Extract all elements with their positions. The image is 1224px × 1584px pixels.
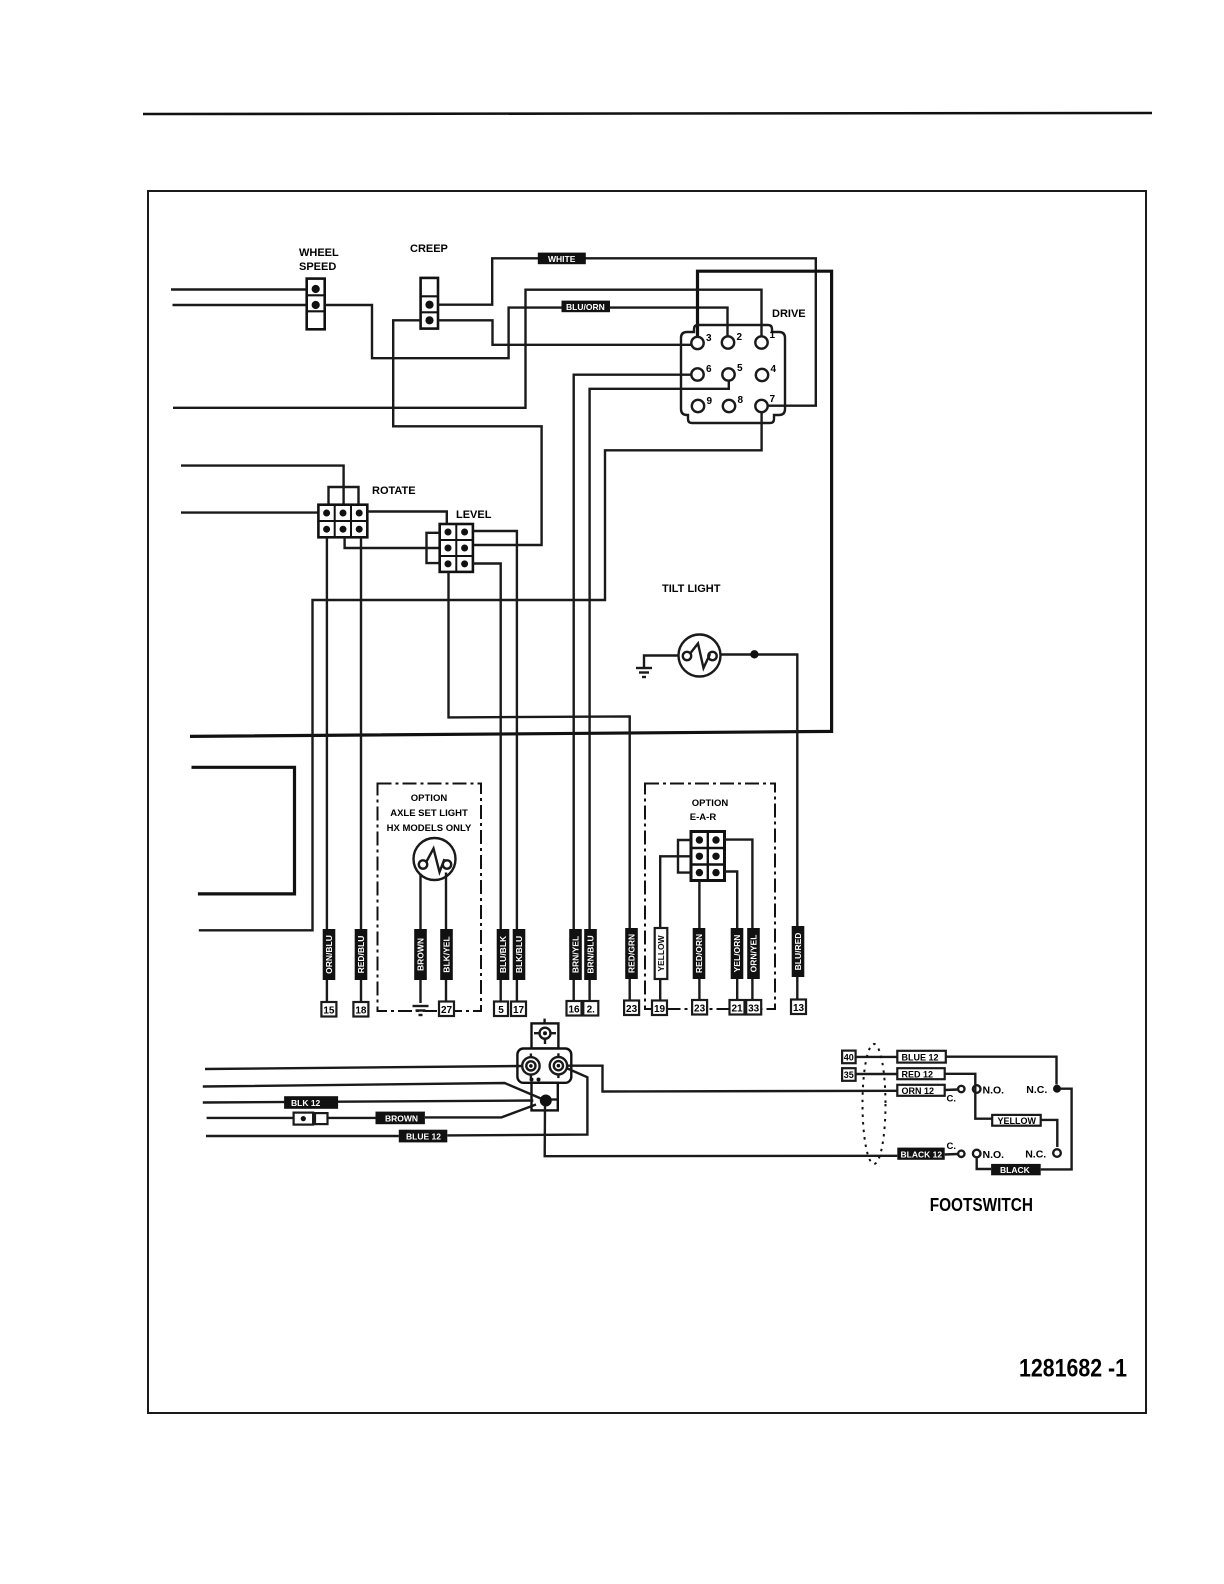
node: E-A-R left bracket rows 1-3	[678, 840, 691, 873]
wire: axle lamp right lead to terminal 27	[445, 873, 447, 1003]
terminal 13	[791, 1000, 806, 1015]
option box E-A-R	[645, 784, 775, 1010]
wire: E-A-R row1 right to terminal 33	[725, 840, 753, 1002]
terminal 17	[511, 1002, 526, 1017]
wire: DRIVE pin 7 long run to lower left stub	[199, 412, 762, 930]
svg-text:19: 19	[654, 1004, 666, 1015]
svg-text:7: 7	[770, 394, 776, 405]
node: harness bundle ellipse	[863, 1044, 886, 1164]
wire: ROTATE col3 down to terminal 18	[360, 537, 362, 1002]
svg-text:YELLOW: YELLOW	[998, 1116, 1037, 1126]
svg-text:N.C.: N.C.	[1025, 1149, 1046, 1161]
svg-text:C.: C.	[947, 1094, 957, 1105]
DRIVE pin 9	[692, 400, 704, 412]
terminal 18	[353, 1002, 368, 1017]
terminal 15	[321, 1002, 336, 1017]
svg-text:4: 4	[771, 364, 777, 375]
wire: left stub through wheel speed pin 2, BLU/ORN run to DRIVE pin 2	[173, 304, 307, 306]
wire: CREEP bottom left run to LEVEL row2 right	[393, 320, 541, 545]
DRIVE pin 8	[723, 400, 735, 412]
node: ROTATE top bracket	[329, 487, 359, 505]
wire label RED 12 footswitch	[897, 1068, 944, 1079]
wire label BLU/BLK	[497, 929, 510, 980]
wire: BLUE 12 up into right stud	[447, 1069, 587, 1136]
svg-text:HX MODELS ONLY: HX MODELS ONLY	[387, 823, 472, 834]
wire: RED 12 to YELLOW	[945, 1074, 993, 1119]
svg-text:27: 27	[441, 1005, 453, 1016]
wire label BLUE 12	[399, 1130, 448, 1143]
svg-text:BLUE 12: BLUE 12	[406, 1132, 441, 1142]
svg-text:WHITE: WHITE	[548, 254, 576, 264]
wire label RED/ORN	[693, 928, 706, 979]
wire: DRIVE pin 5 to terminal 2	[590, 381, 729, 1002]
wire: E-A-R row3 left down to terminal 23	[698, 881, 700, 1003]
svg-text:BLACK 12: BLACK 12	[901, 1149, 943, 1159]
terminal 19	[652, 1001, 667, 1016]
border frame of schematic	[148, 191, 1146, 1413]
connector WHEEL SPEED	[307, 279, 325, 330]
wire: BLUE 12 run to right stud	[206, 1135, 399, 1137]
wire: left stub to left stud	[205, 1066, 522, 1069]
DRIVE pin 3	[691, 337, 703, 349]
svg-text:BLU/ORN: BLU/ORN	[566, 302, 605, 312]
svg-text:CREEP: CREEP	[410, 243, 448, 255]
wire label BLK 12	[284, 1096, 338, 1109]
svg-text:RED 12: RED 12	[902, 1069, 934, 1079]
wire label ORN 12 footswitch	[897, 1085, 944, 1096]
terminal 40	[842, 1051, 856, 1064]
wire label RED/GRN	[625, 928, 638, 979]
connector E-A-R	[691, 832, 725, 881]
ground at axle lamp lead	[413, 1006, 429, 1015]
node: open loop rectangle lower left	[192, 767, 295, 894]
wire: CREEP top to WHITE loop into DRIVE pin 7 right side	[438, 258, 816, 405]
wire label YEL/ORN	[731, 928, 744, 979]
svg-text:1281682 -1: 1281682 -1	[1019, 1355, 1127, 1383]
wire: 40 to BLUE 12	[856, 1056, 898, 1058]
wire: tilt light to terminal 13	[721, 655, 798, 1003]
wire label BLACK	[991, 1164, 1041, 1175]
ground at tilt light	[636, 656, 679, 678]
svg-text:5: 5	[498, 1005, 504, 1016]
node: splice box with dot	[294, 1113, 314, 1125]
svg-text:E-A-R: E-A-R	[690, 812, 717, 823]
wire: ROTATE col2 bottom to LEVEL row2 left	[345, 537, 440, 548]
wire label BROWN	[376, 1112, 425, 1125]
wire: E-A-R row2 left to terminal 19	[660, 856, 691, 1002]
svg-text:BLK/BLU: BLK/BLU	[514, 936, 524, 973]
terminal 33	[746, 1000, 761, 1015]
wire: YELLOW to lower NC contact	[1041, 1120, 1058, 1147]
node: LEVEL left bracket rows 1-3	[427, 533, 440, 563]
wire: ROTATE col1 down to terminal 15	[326, 537, 328, 1002]
svg-text:18: 18	[355, 1006, 367, 1017]
DRIVE pin 1	[755, 336, 767, 348]
wire: LEVEL row3 left down to terminal 23	[449, 572, 630, 1002]
connector LEVEL	[440, 524, 473, 572]
svg-text:FOOTSWITCH: FOOTSWITCH	[930, 1194, 1033, 1215]
svg-text:ORN/YEL: ORN/YEL	[749, 935, 759, 973]
terminal 23 level	[624, 1001, 639, 1016]
terminal 16	[567, 1001, 582, 1016]
wire: BLUE 12 to upper NC contact	[946, 1057, 1057, 1085]
wire: BLK 12 run into splice	[203, 1101, 534, 1103]
svg-text:BLK/YEL: BLK/YEL	[442, 936, 452, 972]
wire: BROWN run continued	[328, 1117, 376, 1119]
svg-text:RED/BLU: RED/BLU	[356, 936, 366, 974]
wire: left stub to wheel speed pin 1	[171, 288, 307, 290]
svg-text:N.C.: N.C.	[1026, 1084, 1047, 1096]
svg-text:BLK 12: BLK 12	[291, 1098, 321, 1108]
lamp TILT LIGHT	[679, 635, 721, 677]
svg-text:1: 1	[770, 330, 776, 341]
svg-text:WHEEL: WHEEL	[299, 247, 339, 259]
svg-text:OPTION: OPTION	[411, 793, 448, 804]
wire: left stub to ROTATE row1 left	[181, 511, 318, 513]
svg-text:RED/ORN: RED/ORN	[694, 934, 704, 973]
wire label YELLOW	[655, 928, 668, 979]
wire label YELLOW	[992, 1115, 1040, 1126]
svg-text:RED/GRN: RED/GRN	[627, 934, 637, 973]
svg-text:YEL/ORN: YEL/ORN	[732, 935, 742, 973]
svg-text:21: 21	[731, 1004, 743, 1015]
svg-text:SPEED: SPEED	[299, 261, 336, 273]
svg-text:BROWN: BROWN	[385, 1113, 418, 1123]
wire label BLUE 12 footswitch	[897, 1051, 946, 1063]
wire: right stud to footswitch ORN 12	[567, 1066, 897, 1092]
wire label BRN/YEL	[569, 929, 582, 980]
svg-text:5: 5	[737, 363, 743, 374]
terminal 5	[494, 1002, 508, 1017]
svg-text:BLU/BLK: BLU/BLK	[498, 935, 508, 973]
svg-text:DRIVE: DRIVE	[772, 308, 806, 320]
terminal 21	[730, 1000, 745, 1015]
lamp AXLE SET LIGHT	[414, 838, 456, 880]
svg-text:YELLOW: YELLOW	[656, 934, 666, 971]
wire: E-A-R row3 right to terminal 21	[725, 872, 738, 1003]
wire: CREEP bottom right run to DRIVE pin 3	[438, 320, 691, 345]
svg-text:BROWN: BROWN	[416, 938, 426, 971]
svg-text:8: 8	[738, 395, 744, 406]
svg-text:BRN/BLU: BRN/BLU	[586, 935, 596, 973]
wire: left stub 2 into splice	[203, 1083, 541, 1099]
wire label ORN/YEL	[747, 928, 760, 979]
svg-text:ORN 12: ORN 12	[902, 1086, 935, 1096]
wire label BLK/YEL	[440, 929, 453, 980]
terminal 23 ear	[692, 1000, 707, 1015]
wire label BLU/ORN	[562, 301, 611, 313]
terminal 35	[842, 1068, 856, 1081]
lower switch N.O. contact	[973, 1150, 981, 1158]
svg-text:33: 33	[748, 1004, 760, 1015]
wire label BLU/RED	[792, 926, 805, 977]
svg-text:BLUE 12: BLUE 12	[902, 1052, 939, 1062]
svg-text:C.: C.	[947, 1141, 957, 1152]
svg-text:9: 9	[707, 396, 713, 407]
wire label WHITE	[538, 253, 586, 265]
wire: 35 to RED 12	[856, 1073, 898, 1075]
wire: BROWN run into splice	[207, 1117, 294, 1119]
svg-text:N.O.: N.O.	[983, 1149, 1005, 1161]
wire: BROWN into splice	[425, 1105, 536, 1118]
wire label ORN/BLU	[323, 929, 336, 980]
svg-text:2: 2	[737, 332, 743, 343]
terminal 2	[583, 1001, 598, 1016]
connector DRIVE	[681, 325, 785, 423]
DRIVE pin 5	[722, 368, 734, 380]
wire: lower N.O. to BLACK	[977, 1157, 991, 1169]
svg-text:BLU/RED: BLU/RED	[793, 933, 803, 971]
wire: left stub feeding ROTATE top bracket	[181, 466, 344, 505]
wire: splice down to footswitch BLACK 12	[545, 1106, 898, 1157]
wire label BROWN	[414, 929, 427, 980]
svg-text:40: 40	[844, 1053, 854, 1063]
svg-text:23: 23	[626, 1004, 638, 1015]
connector lower splice box	[532, 1083, 559, 1111]
connector ROTATE	[318, 505, 367, 538]
svg-text:23: 23	[694, 1004, 706, 1015]
upper switch N.O. contact	[973, 1085, 981, 1093]
svg-text:LEVEL: LEVEL	[456, 509, 492, 521]
svg-text:AXLE SET LIGHT: AXLE SET LIGHT	[390, 808, 468, 819]
wire: left stub to DRIVE pin 1	[173, 290, 762, 408]
wire: axle lamp left lead to ground	[419, 874, 421, 1003]
svg-text:ORN/BLU: ORN/BLU	[324, 935, 334, 974]
wire label BLK/BLU	[513, 929, 526, 980]
svg-text:BLACK: BLACK	[1000, 1165, 1031, 1175]
svg-text:16: 16	[568, 1005, 580, 1016]
svg-text:6: 6	[706, 364, 712, 375]
svg-text:3: 3	[706, 333, 712, 344]
DRIVE pin 6	[691, 368, 703, 380]
node: junction dot on tilt light wire	[750, 650, 758, 658]
page rule top	[143, 113, 1152, 114]
svg-text:13: 13	[793, 1003, 805, 1014]
terminal 27	[439, 1002, 454, 1017]
wire: DRIVE pin 3 top loop down to lower bus	[190, 271, 832, 736]
svg-text:TILT LIGHT: TILT LIGHT	[662, 583, 721, 595]
connector CREEP	[421, 278, 438, 329]
svg-text:N.O.: N.O.	[983, 1085, 1005, 1097]
wire label RED/BLU	[355, 929, 368, 980]
svg-text:15: 15	[323, 1006, 335, 1017]
wire: DRIVE pin 6 to terminal 16	[574, 375, 692, 1002]
wire: BLACK to upper NC contact	[1041, 1089, 1072, 1170]
node: splice box empty	[315, 1113, 328, 1124]
wire: ROTATE row1 right to LEVEL row1 left	[367, 512, 447, 525]
wire label BLACK 12 footswitch	[897, 1148, 944, 1160]
svg-text:2.: 2.	[587, 1005, 596, 1016]
DRIVE pin 2	[722, 336, 734, 348]
wire: LEVEL row3 right down to terminal 5	[473, 564, 501, 1003]
wire label BRN/BLU	[584, 929, 597, 980]
DRIVE pin 4	[756, 369, 768, 381]
svg-text:BRN/YEL: BRN/YEL	[571, 936, 581, 973]
wire: LEVEL row1 right down to terminal 17	[473, 531, 517, 1002]
option box AXLE SET LIGHT	[378, 784, 482, 1012]
svg-text:35: 35	[844, 1070, 854, 1080]
svg-text:OPTION: OPTION	[692, 798, 729, 809]
svg-text:ROTATE: ROTATE	[372, 485, 416, 497]
DRIVE pin 7	[755, 400, 767, 412]
svg-text:17: 17	[513, 1005, 525, 1016]
connector main stud block	[517, 1049, 571, 1083]
connector battery stud top box	[532, 1019, 559, 1049]
